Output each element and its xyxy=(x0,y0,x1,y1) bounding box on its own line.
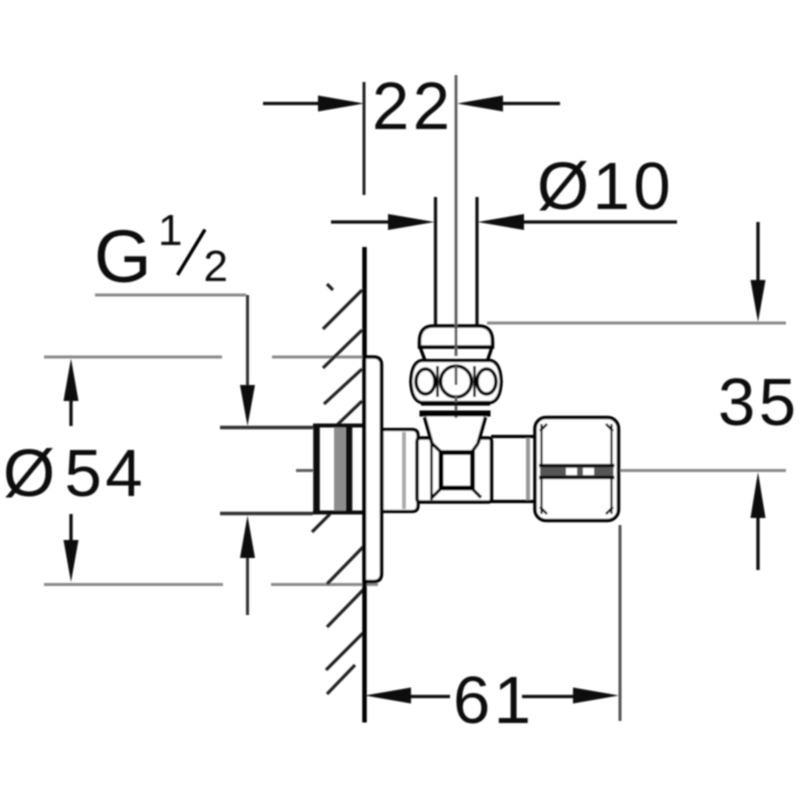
svg-text:54: 54 xyxy=(65,436,147,511)
svg-text:1: 1 xyxy=(158,206,182,255)
svg-text:Ø10: Ø10 xyxy=(537,149,674,224)
svg-text:Ø: Ø xyxy=(3,436,59,511)
svg-text:61: 61 xyxy=(453,663,535,738)
svg-text:2: 2 xyxy=(204,242,228,291)
svg-text:22: 22 xyxy=(372,69,454,144)
svg-text:35: 35 xyxy=(718,365,800,440)
svg-text:G: G xyxy=(94,215,152,298)
